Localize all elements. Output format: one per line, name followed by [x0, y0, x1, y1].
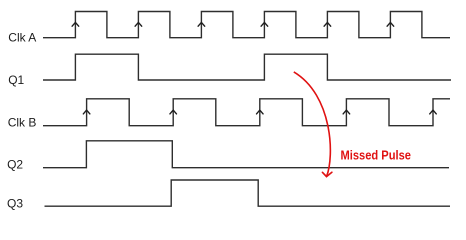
svg-text:Missed Pulse: Missed Pulse [341, 149, 412, 163]
svg-text:Q3: Q3 [7, 197, 23, 211]
svg-text:Clk A: Clk A [8, 31, 36, 45]
svg-text:Clk B: Clk B [8, 116, 37, 130]
svg-text:Q2: Q2 [7, 158, 23, 172]
svg-text:Q1: Q1 [8, 73, 24, 87]
